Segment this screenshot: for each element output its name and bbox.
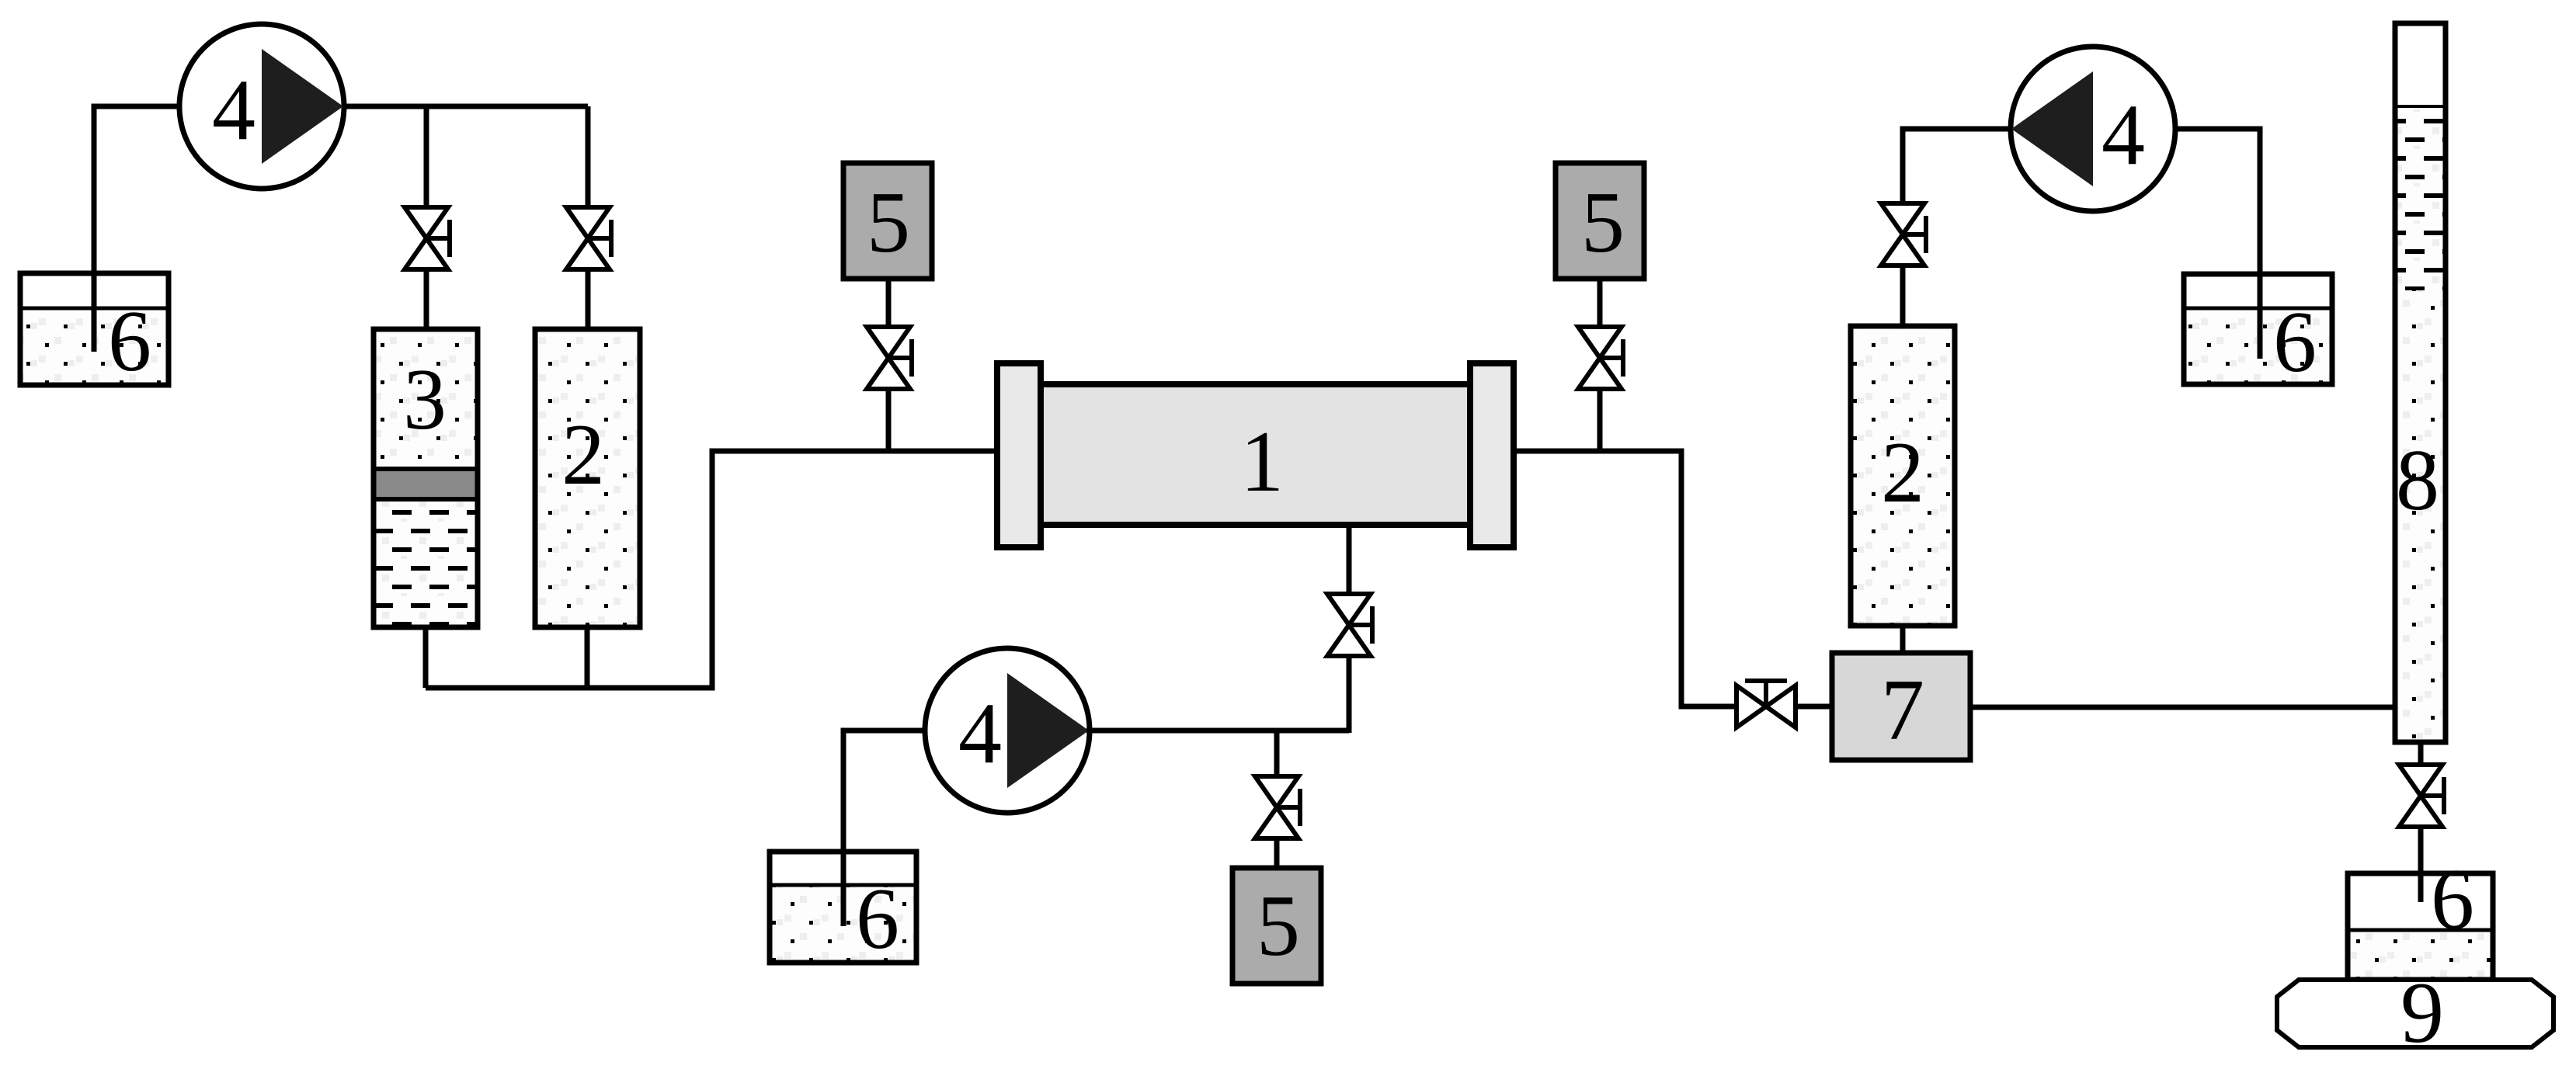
wire vessel 2b to regulator 7 — [1900, 626, 1906, 653]
wire vessel 3 bottom stem — [423, 627, 429, 688]
wire burette 8 bottom stem — [2418, 742, 2424, 765]
wire valve V8 to pump P3 — [1903, 129, 2012, 203]
wire bottom manifold to module inlet — [426, 451, 999, 688]
wire module outlet header — [1514, 451, 1736, 706]
svg-text:5: 5 — [1257, 878, 1300, 974]
valve V7 (horizontal) — [1736, 681, 1796, 727]
wire vessel 2a bottom stem — [585, 627, 590, 688]
valve V1 — [405, 207, 450, 269]
svg-text:2: 2 — [561, 407, 605, 503]
wire valve V1 to vessel 3 — [424, 269, 429, 329]
wire valve V2 to vessel 2a — [586, 269, 591, 329]
wire stem junction to valve V5 — [1597, 389, 1603, 451]
svg-text:2: 2 — [1881, 425, 1924, 521]
valve V3 — [867, 327, 912, 389]
svg-text:4: 4 — [958, 685, 1002, 782]
wire stem junction to valve V6 — [1274, 731, 1280, 776]
wire pump P1 suction line — [94, 106, 181, 352]
valve V5 — [1578, 327, 1623, 389]
balance 9 (weighing scale) — [2277, 965, 2553, 1061]
wire valve V7 to back-pressure regulator 7 — [1796, 704, 1832, 710]
svg-text:6: 6 — [2273, 294, 2317, 390]
valve V8 — [1881, 203, 1926, 266]
wire stem to valve V1 — [424, 106, 429, 207]
svg-text:3: 3 — [403, 352, 447, 448]
container 6a (top-left reservoir) — [20, 273, 169, 390]
container 6b (bottom reservoir) — [770, 852, 916, 967]
svg-text:4: 4 — [2101, 87, 2145, 183]
wire pump P2 discharge — [1086, 728, 1349, 734]
svg-text:5: 5 — [1581, 175, 1625, 271]
vessel 2a (left column) — [535, 329, 640, 627]
svg-text:7: 7 — [1881, 662, 1924, 758]
sensor 5c (bottom pressure gauge) — [1232, 868, 1321, 984]
valve V2 — [566, 207, 611, 269]
svg-text:8: 8 — [2396, 432, 2439, 529]
wire pump P1 discharge header — [342, 104, 588, 109]
pump P3 (4, top-right) — [2011, 47, 2175, 211]
vessel 2b (right column) — [1851, 326, 1955, 626]
svg-text:5: 5 — [867, 175, 910, 271]
back-pressure regulator 7 — [1832, 653, 1970, 760]
container 6d (bottom-right collector) — [2348, 852, 2493, 980]
wire valve V6 to sensor 5c — [1274, 838, 1280, 869]
container 6c (top-right reservoir) — [2184, 274, 2332, 390]
sensor 5b (right pressure gauge) — [1556, 163, 1644, 279]
svg-text:6: 6 — [2431, 852, 2474, 948]
wire regulator 7 to burette 8 — [1970, 705, 2395, 710]
wire dip into container 6d — [2418, 873, 2424, 902]
wire stem to valve V2 — [586, 106, 591, 207]
valve V6 — [1255, 776, 1300, 838]
sensor 5a (left pressure gauge) — [843, 163, 932, 279]
wire module permeate outlet — [1347, 525, 1352, 594]
membrane module 1 — [997, 363, 1514, 547]
svg-text:4: 4 — [212, 62, 256, 158]
wire pump P3 suction line — [2174, 129, 2260, 359]
valve V9 — [2399, 765, 2444, 827]
wire dip into container 6c — [2258, 274, 2263, 359]
wire dip into container 6b — [841, 852, 846, 926]
wire valve V5 to sensor 5b — [1597, 277, 1603, 327]
svg-text:6: 6 — [108, 293, 151, 390]
pump P2 (4, bottom) — [925, 648, 1090, 813]
wire valve V3 to sensor 5a — [886, 277, 892, 327]
wire dip into container 6a — [92, 273, 97, 352]
wire pump P2 suction line — [843, 731, 926, 926]
wire valve V4 down to pump line — [1347, 656, 1352, 733]
svg-text:6: 6 — [856, 871, 899, 967]
wire stem junction to valve V3 — [886, 389, 892, 451]
svg-text:1: 1 — [1240, 414, 1284, 510]
valve V4 — [1327, 594, 1372, 656]
burette 8 (graduated column) — [2395, 23, 2446, 742]
svg-text:9: 9 — [2400, 965, 2444, 1061]
wire valve V9 to container 6d — [2418, 827, 2424, 893]
pump P1 (4, top-left) — [179, 24, 344, 189]
wire vessel 2b top stem — [1900, 266, 1906, 326]
vessel 3 (piston accumulator) — [374, 329, 478, 627]
